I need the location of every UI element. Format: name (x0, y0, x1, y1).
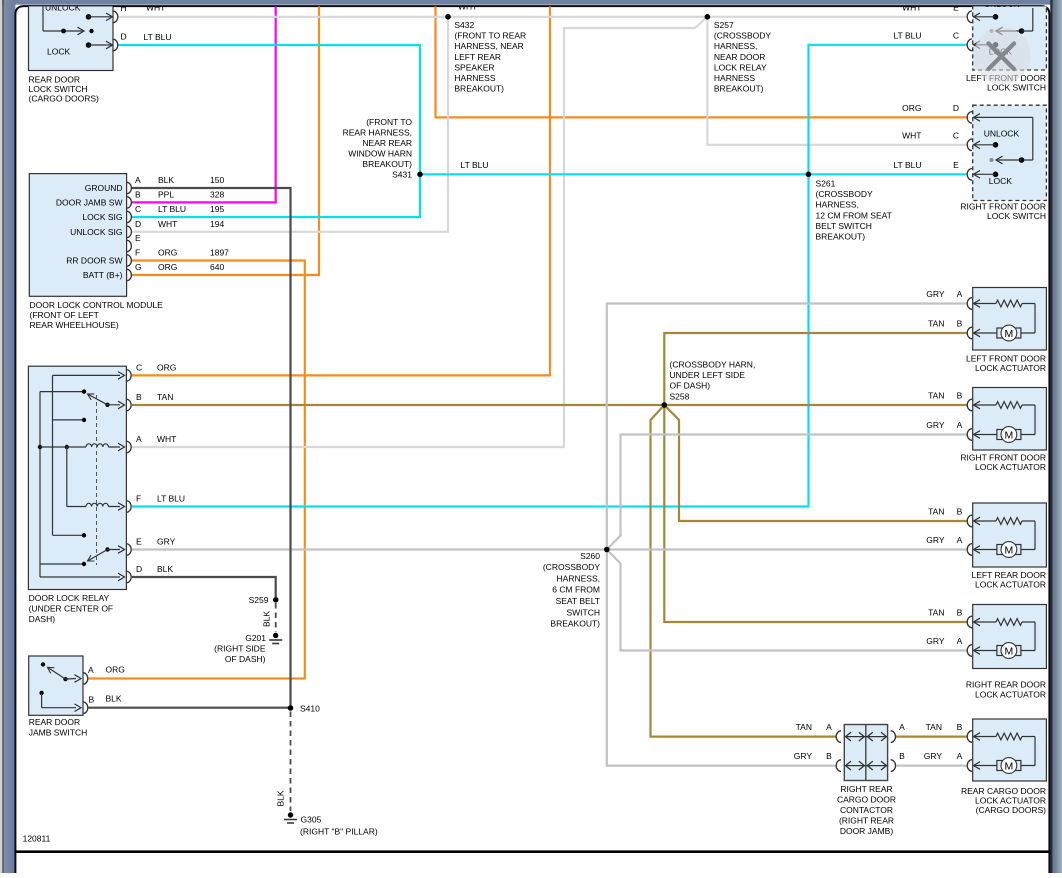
relay internal: coil 1 (pin A) (38, 445, 42, 449)
svg-text:150: 150 (210, 175, 224, 185)
svg-text:BREAKOUT): BREAKOUT) (714, 84, 764, 94)
relay internal: left bus (39, 392, 41, 577)
svg-text:BELT SWITCH: BELT SWITCH (816, 221, 872, 231)
svg-text:B: B (135, 189, 141, 199)
wire TAN S258 up to LEFT FRONT DOOR LOCK ACTUATOR pin B (664, 333, 967, 405)
wire LT BLU S431 to S261 to RIGHT FRONT DOOR LOCK SWITCH pin E (420, 173, 967, 175)
svg-text:B: B (957, 319, 963, 329)
pin E (967, 11, 972, 23)
pin B (83, 702, 88, 714)
pin C (967, 139, 972, 151)
svg-text:E: E (953, 160, 959, 170)
pin (motor row) (967, 429, 972, 441)
svg-text:LT BLU: LT BLU (461, 160, 489, 170)
svg-text:A: A (899, 722, 905, 732)
svg-text:RIGHT REAR: RIGHT REAR (840, 784, 892, 794)
switch common feed (974, 114, 981, 122)
pin A (83, 673, 88, 685)
pin (resistor row) (967, 731, 972, 743)
svg-text:B: B (957, 608, 963, 618)
pin E (126, 544, 131, 556)
svg-text:194: 194 (210, 219, 224, 229)
svg-text:BLK: BLK (157, 564, 173, 574)
motor M1 LEFT FRONT DOOR LOCK ACTUATOR (966, 288, 1046, 374)
svg-text:NEAR REAR: NEAR REAR (362, 138, 412, 148)
svg-text:ORG: ORG (158, 248, 177, 258)
pin (resistor row) (967, 298, 972, 310)
wire BLK dashed S259 to G201 (275, 603, 277, 632)
svg-text:GRY: GRY (926, 289, 945, 299)
svg-text:BLK: BLK (262, 611, 272, 627)
pin F RR DOOR SW (127, 255, 132, 267)
splice S261 (806, 172, 892, 242)
splice S260 (543, 547, 610, 629)
svg-text:ORG: ORG (902, 103, 921, 113)
svg-text:NEAR DOOR: NEAR DOOR (714, 52, 765, 62)
svg-text:C: C (135, 204, 141, 214)
svg-text:S257: S257 (714, 20, 734, 30)
svg-text:LEFT REAR: LEFT REAR (454, 52, 501, 62)
motor M (1021, 434, 1035, 436)
switch contact row C (993, 42, 999, 48)
svg-text:(CARGO DOORS): (CARGO DOORS) (976, 805, 1047, 815)
svg-text:LEFT FRONT DOOR: LEFT FRONT DOOR (966, 354, 1046, 364)
motor M3 LEFT REAR DOOR LOCK ACTUATOR (967, 503, 1046, 589)
svg-text:DOOR LOCK CONTROL MODULE: DOOR LOCK CONTROL MODULE (30, 300, 164, 310)
svg-text:BREAKOUT): BREAKOUT) (362, 159, 412, 169)
svg-text:TAN: TAN (928, 319, 944, 329)
svg-text:LOCK ACTUATOR: LOCK ACTUATOR (975, 462, 1046, 472)
motor M (1021, 332, 1035, 334)
svg-text:DOOR JAMB): DOOR JAMB) (840, 826, 894, 836)
svg-text:(RIGHT "B" PILLAR): (RIGHT "B" PILLAR) (300, 826, 378, 836)
svg-text:RIGHT REAR DOOR: RIGHT REAR DOOR (966, 680, 1046, 690)
svg-text:OF DASH): OF DASH) (670, 381, 711, 391)
svg-text:REAR HARNESS,: REAR HARNESS, (343, 127, 412, 137)
wire TAN contactor right pin A to REAR CARGO DOOR LOCK ACTUATOR pin B (896, 735, 967, 737)
svg-text:ORG: ORG (158, 262, 177, 272)
wire GRY S260 down to RIGHT REAR DOOR LOCK ACTUATOR pin A (607, 550, 967, 651)
svg-text:S259: S259 (249, 595, 269, 605)
svg-text:G305: G305 (301, 815, 322, 825)
pin (resistor row) (967, 399, 972, 411)
svg-text:S261: S261 (816, 179, 836, 189)
svg-text:LOCK SWITCH: LOCK SWITCH (987, 211, 1046, 221)
splice S258 (662, 360, 756, 408)
svg-text:BREAKOUT): BREAKOUT) (550, 619, 600, 629)
splice S257 (705, 14, 772, 94)
svg-text:GRY: GRY (924, 751, 943, 761)
svg-text:BLK: BLK (106, 694, 122, 704)
svg-text:(CROSSBODY: (CROSSBODY (816, 189, 873, 199)
svg-text:A: A (957, 751, 963, 761)
svg-text:D: D (953, 103, 959, 113)
resistor (996, 300, 1022, 307)
svg-text:D: D (121, 32, 127, 42)
svg-text:SWITCH: SWITCH (566, 607, 600, 617)
relay internal: lower switch (53, 534, 85, 536)
motor M (1021, 650, 1035, 652)
motor M4 RIGHT REAR DOOR LOCK ACTUATOR (966, 605, 1047, 700)
svg-text:HARNESS, NEAR: HARNESS, NEAR (454, 41, 523, 51)
svg-text:M: M (1005, 429, 1014, 441)
svg-text:(CROSSBODY HARN,: (CROSSBODY HARN, (670, 360, 756, 370)
svg-text:HARNESS: HARNESS (714, 73, 755, 83)
pin (motor row) (967, 645, 972, 657)
svg-text:LOCK SWITCH: LOCK SWITCH (987, 82, 1046, 92)
svg-text:A: A (136, 434, 142, 444)
wire TAN relay pin B through S258 to RIGHT FRONT DOOR LOCK ACTUATOR pin B (132, 404, 967, 406)
pin F (126, 501, 131, 513)
svg-text:GRY: GRY (926, 636, 945, 646)
svg-text:A: A (957, 636, 963, 646)
switch contact B (39, 691, 43, 695)
switch contact row C (993, 142, 999, 148)
svg-text:M: M (1005, 328, 1014, 340)
wire ORG relay pin C up to top (132, 6, 550, 375)
svg-text:120811: 120811 (23, 834, 51, 844)
wire GRY S260 up to RIGHT FRONT DOOR LOCK ACTUATOR pin A (607, 435, 967, 550)
svg-text:LOCK: LOCK (989, 176, 1012, 186)
pin A GROUND (127, 182, 132, 194)
svg-text:E: E (136, 537, 142, 547)
svg-text:LOCK: LOCK (47, 47, 70, 57)
module U1 DOOR LOCK CONTROL MODULE (29, 174, 229, 331)
svg-text:S258: S258 (670, 391, 690, 401)
splice S431 (343, 117, 423, 180)
svg-text:LOCK ACTUATOR: LOCK ACTUATOR (975, 796, 1046, 806)
svg-text:ORG: ORG (157, 362, 176, 372)
relay internal: pin D line (40, 576, 120, 578)
svg-text:A: A (957, 289, 963, 299)
relay internal: coil 2 (pin F) (67, 506, 86, 508)
svg-text:GRY: GRY (926, 420, 945, 430)
relay internal: upper switch (53, 419, 85, 421)
svg-text:G201: G201 (245, 633, 266, 643)
pin (resistor row) (967, 515, 972, 527)
svg-text:GRY: GRY (794, 751, 813, 761)
switch contact row E (993, 172, 999, 178)
motor M5 REAR CARGO DOOR LOCK ACTUATOR (CARGO DOORS) (961, 719, 1046, 815)
svg-text:RR DOOR SW: RR DOOR SW (66, 256, 122, 266)
svg-text:A: A (957, 420, 963, 430)
svg-text:TAN: TAN (157, 392, 173, 402)
svg-text:LT BLU: LT BLU (157, 494, 185, 504)
svg-text:LT BLU: LT BLU (893, 160, 921, 170)
motor M (1021, 549, 1035, 551)
wire LT BLU switch pin D to module pin C LOCK SIG (119, 45, 421, 217)
svg-text:B: B (136, 392, 142, 402)
switch SW3 LEFT FRONT DOOR LOCK SWITCH (966, 0, 1046, 92)
resistor (996, 402, 1022, 409)
contactor pins row (836, 760, 841, 772)
svg-text:TAN: TAN (928, 507, 944, 517)
svg-text:UNLOCK SIG: UNLOCK SIG (70, 227, 122, 237)
svg-text:C: C (953, 30, 959, 40)
pin H (113, 11, 118, 23)
wire WHT S257 down to RIGHT FRONT DOOR LOCK SWITCH pin C (707, 17, 966, 145)
svg-text:B: B (826, 751, 832, 761)
pin C LOCK SIG (127, 211, 132, 223)
pin G BATT (B+) (127, 269, 132, 281)
pin E (967, 169, 972, 181)
svg-text:(CROSSBODY: (CROSSBODY (714, 31, 771, 41)
svg-text:RIGHT FRONT DOOR: RIGHT FRONT DOOR (960, 452, 1046, 462)
pin D (113, 39, 118, 51)
svg-text:(RIGHT SIDE: (RIGHT SIDE (214, 644, 266, 654)
svg-text:B: B (957, 507, 963, 517)
pin B DOOR JAMB SW (127, 197, 132, 209)
svg-text:BLK: BLK (158, 175, 174, 185)
svg-text:LT BLU: LT BLU (144, 32, 172, 42)
svg-text:(FRONT TO: (FRONT TO (366, 117, 412, 127)
pin D (126, 571, 131, 583)
switch SW4 RIGHT FRONT DOOR LOCK SWITCH (960, 105, 1046, 221)
svg-text:PPL: PPL (158, 189, 174, 199)
svg-text:E: E (135, 233, 141, 243)
svg-text:DOOR JAMB SW: DOOR JAMB SW (56, 197, 123, 207)
svg-text:LOCK ACTUATOR: LOCK ACTUATOR (975, 579, 1046, 589)
resistor (996, 733, 1022, 740)
connector J1 RIGHT REAR CARGO DOOR CONTACTOR (794, 722, 905, 836)
wire BLK REAR DOOR JAMB SWITCH pin B to S410 (89, 707, 291, 709)
pin C (126, 370, 131, 382)
svg-text:(FRONT OF LEFT: (FRONT OF LEFT (30, 310, 99, 320)
switch SW1 REAR DOOR LOCK SWITCH (CARGO DOORS) (29, 0, 172, 104)
svg-text:LT BLU: LT BLU (893, 30, 921, 40)
wire BLK relay pin D to S259 (132, 577, 276, 597)
wire TAN S258 down to RIGHT REAR DOOR LOCK ACTUATOR pin B (664, 405, 967, 622)
relay internal: mechanical link (dashed) (96, 395, 98, 565)
svg-text:HARNESS: HARNESS (454, 73, 495, 83)
svg-text:BLK: BLK (276, 790, 286, 806)
svg-text:BREAKOUT): BREAKOUT) (816, 232, 866, 242)
wire ORG module pin G BATT(B+) up to top (132, 6, 319, 275)
wire TAN S258 down to RIGHT REAR CARGO DOOR CONTACTOR pin A (651, 405, 837, 737)
svg-text:TAN: TAN (928, 391, 944, 401)
svg-text:TAN: TAN (796, 722, 812, 732)
svg-text:LOCK ACTUATOR: LOCK ACTUATOR (975, 363, 1046, 373)
wire GRY relay pin E through S260 to LEFT REAR DOOR LOCK ACTUATOR pin A (132, 548, 967, 550)
svg-text:CONTACTOR: CONTACTOR (840, 805, 893, 815)
pin A (126, 441, 131, 453)
svg-text:JAMB SWITCH: JAMB SWITCH (29, 728, 88, 738)
svg-text:328: 328 (210, 189, 224, 199)
wire ORG from S432 feed down to RIGHT FRONT DOOR LOCK SWITCH pin D (436, 6, 967, 117)
svg-text:CARGO DOOR: CARGO DOOR (837, 794, 896, 804)
svg-text:TAN: TAN (926, 722, 942, 732)
svg-text:ORG: ORG (106, 664, 125, 674)
svg-text:WHT: WHT (158, 219, 177, 229)
svg-text:S260: S260 (580, 551, 600, 561)
svg-text:A: A (88, 665, 94, 675)
pin (motor row) (967, 760, 972, 772)
svg-text:LEFT REAR DOOR: LEFT REAR DOOR (972, 570, 1046, 580)
svg-text:WHT: WHT (157, 434, 176, 444)
svg-text:REAR WHEELHOUSE): REAR WHEELHOUSE) (30, 320, 119, 330)
svg-text:GRY: GRY (926, 535, 945, 545)
pin (resistor row) (967, 616, 972, 628)
svg-text:S432: S432 (454, 20, 474, 30)
svg-text:M: M (1005, 760, 1014, 772)
svg-text:12 CM FROM SEAT: 12 CM FROM SEAT (816, 210, 892, 220)
svg-text:LOCK SWITCH: LOCK SWITCH (29, 84, 88, 94)
splice S410 (288, 704, 320, 714)
svg-text:B: B (89, 694, 95, 704)
wire BLK module pin A GROUND down to S410 (132, 188, 291, 708)
wire TAN S258 down to LEFT REAR DOOR LOCK ACTUATOR pin B (664, 405, 967, 521)
svg-text:WHT: WHT (902, 130, 921, 140)
motor M2 RIGHT FRONT DOOR LOCK ACTUATOR (960, 388, 1046, 473)
pin (motor row) (967, 327, 972, 339)
svg-text:WINDOW HARN: WINDOW HARN (348, 148, 412, 158)
svg-text:LOCK ACTUATOR: LOCK ACTUATOR (975, 689, 1046, 699)
motor M (1021, 765, 1035, 767)
svg-text:M: M (1005, 645, 1014, 657)
svg-text:A: A (957, 535, 963, 545)
svg-text:BATT (B+): BATT (B+) (83, 270, 123, 280)
splice S259 (249, 595, 279, 605)
resistor (996, 518, 1022, 525)
wire GRY S260 down to RIGHT REAR CARGO DOOR CONTACTOR pin B (607, 550, 836, 766)
contactor pins row (836, 731, 841, 743)
svg-text:LOCK SIG: LOCK SIG (82, 212, 122, 222)
wire GRY contactor right pin B to REAR CARGO DOOR LOCK ACTUATOR pin A (896, 764, 967, 766)
svg-text:(CARGO DOORS): (CARGO DOORS) (29, 94, 100, 104)
svg-text:HARNESS,: HARNESS, (557, 573, 600, 583)
ground G305 (284, 812, 378, 836)
svg-text:REAR DOOR: REAR DOOR (29, 74, 80, 84)
wire WHT top run switch pin H to S432 to S257 to LEFT FRONT DOOR LOCK SWITCH pin E (119, 16, 967, 18)
svg-text:GROUND: GROUND (85, 183, 123, 193)
pin C (967, 39, 972, 51)
svg-text:DASH): DASH) (29, 614, 56, 624)
svg-text:REAR DOOR: REAR DOOR (29, 717, 80, 727)
svg-text:LT BLU: LT BLU (158, 204, 186, 214)
svg-text:(RIGHT REAR: (RIGHT REAR (839, 816, 894, 826)
svg-text:GRY: GRY (157, 537, 176, 547)
svg-text:BREAKOUT): BREAKOUT) (454, 84, 504, 94)
svg-text:640: 640 (210, 262, 224, 272)
svg-text:D: D (136, 564, 142, 574)
switch common blade (42, 6, 44, 31)
pin D UNLOCK SIG (127, 226, 132, 238)
svg-text:(CROSSBODY: (CROSSBODY (543, 562, 600, 572)
svg-text:C: C (136, 362, 142, 372)
svg-text:UNLOCK: UNLOCK (984, 129, 1020, 139)
svg-text:F: F (135, 248, 140, 258)
switch SW2 REAR DOOR JAMB SWITCH (29, 656, 125, 738)
relay K1 DOOR LOCK RELAY (28, 362, 185, 624)
pin (motor row) (967, 544, 972, 556)
svg-text:LOCK RELAY: LOCK RELAY (714, 62, 767, 72)
svg-text:D: D (135, 219, 141, 229)
svg-text:C: C (953, 130, 959, 140)
svg-text:B: B (957, 391, 963, 401)
pin E (127, 240, 132, 252)
svg-text:S410: S410 (300, 704, 320, 714)
wire BLK dashed S410 to G305 (290, 712, 292, 812)
svg-text:UNDER LEFT SIDE: UNDER LEFT SIDE (670, 370, 746, 380)
svg-text:REAR CARGO DOOR: REAR CARGO DOOR (961, 786, 1046, 796)
switch contact row D (86, 42, 92, 48)
svg-text:G: G (135, 262, 142, 272)
svg-text:SPEAKER: SPEAKER (454, 62, 494, 72)
pin D (967, 112, 972, 124)
svg-text:(UNDER CENTER OF: (UNDER CENTER OF (29, 604, 114, 614)
switch contact row E (993, 14, 999, 20)
svg-text:OF DASH): OF DASH) (225, 654, 266, 664)
wire ORG module pin F RR DOOR SW down to REAR DOOR JAMB SWITCH pin A (89, 261, 305, 679)
relay internal: common feed from pin C (53, 374, 121, 376)
svg-text:(FRONT TO REAR: (FRONT TO REAR (454, 31, 526, 41)
wire WHT S257 to relay pin A (132, 17, 707, 447)
svg-text:6 CM FROM: 6 CM FROM (552, 585, 600, 595)
switch common blade (990, 29, 994, 33)
svg-text:DOOR LOCK RELAY: DOOR LOCK RELAY (29, 593, 110, 603)
svg-text:A: A (135, 175, 141, 185)
svg-text:A: A (826, 722, 832, 732)
ground G201 (214, 633, 282, 664)
svg-text:S431: S431 (392, 169, 412, 179)
svg-text:HARNESS,: HARNESS, (714, 41, 757, 51)
switch contact row H (86, 14, 92, 20)
svg-text:195: 195 (210, 204, 224, 214)
pin B (126, 399, 131, 411)
svg-text:M: M (1005, 544, 1014, 556)
wire GRY S260 up to LEFT FRONT DOOR LOCK ACTUATOR pin A (607, 304, 967, 550)
svg-text:HARNESS,: HARNESS, (816, 200, 859, 210)
svg-text:F: F (136, 494, 141, 504)
wire PPL module pin B DOOR JAMB SW up to top (132, 6, 276, 202)
resistor (996, 619, 1022, 626)
svg-text:B: B (899, 751, 905, 761)
close icon watermark (974, 27, 1031, 84)
wire LT BLU LEFT FRONT DOOR LOCK SWITCH pin C through S261 down to relay pin F (132, 45, 967, 507)
switch blade (41, 662, 45, 666)
wire WHT module pin D UNLOCK SIG up to S432 (132, 17, 448, 232)
svg-text:B: B (957, 722, 963, 732)
splice S432 (445, 14, 526, 94)
svg-text:SEAT BELT: SEAT BELT (556, 596, 600, 606)
svg-text:1897: 1897 (210, 248, 229, 258)
svg-text:RIGHT FRONT DOOR: RIGHT FRONT DOOR (960, 202, 1046, 212)
svg-text:TAN: TAN (928, 608, 944, 618)
